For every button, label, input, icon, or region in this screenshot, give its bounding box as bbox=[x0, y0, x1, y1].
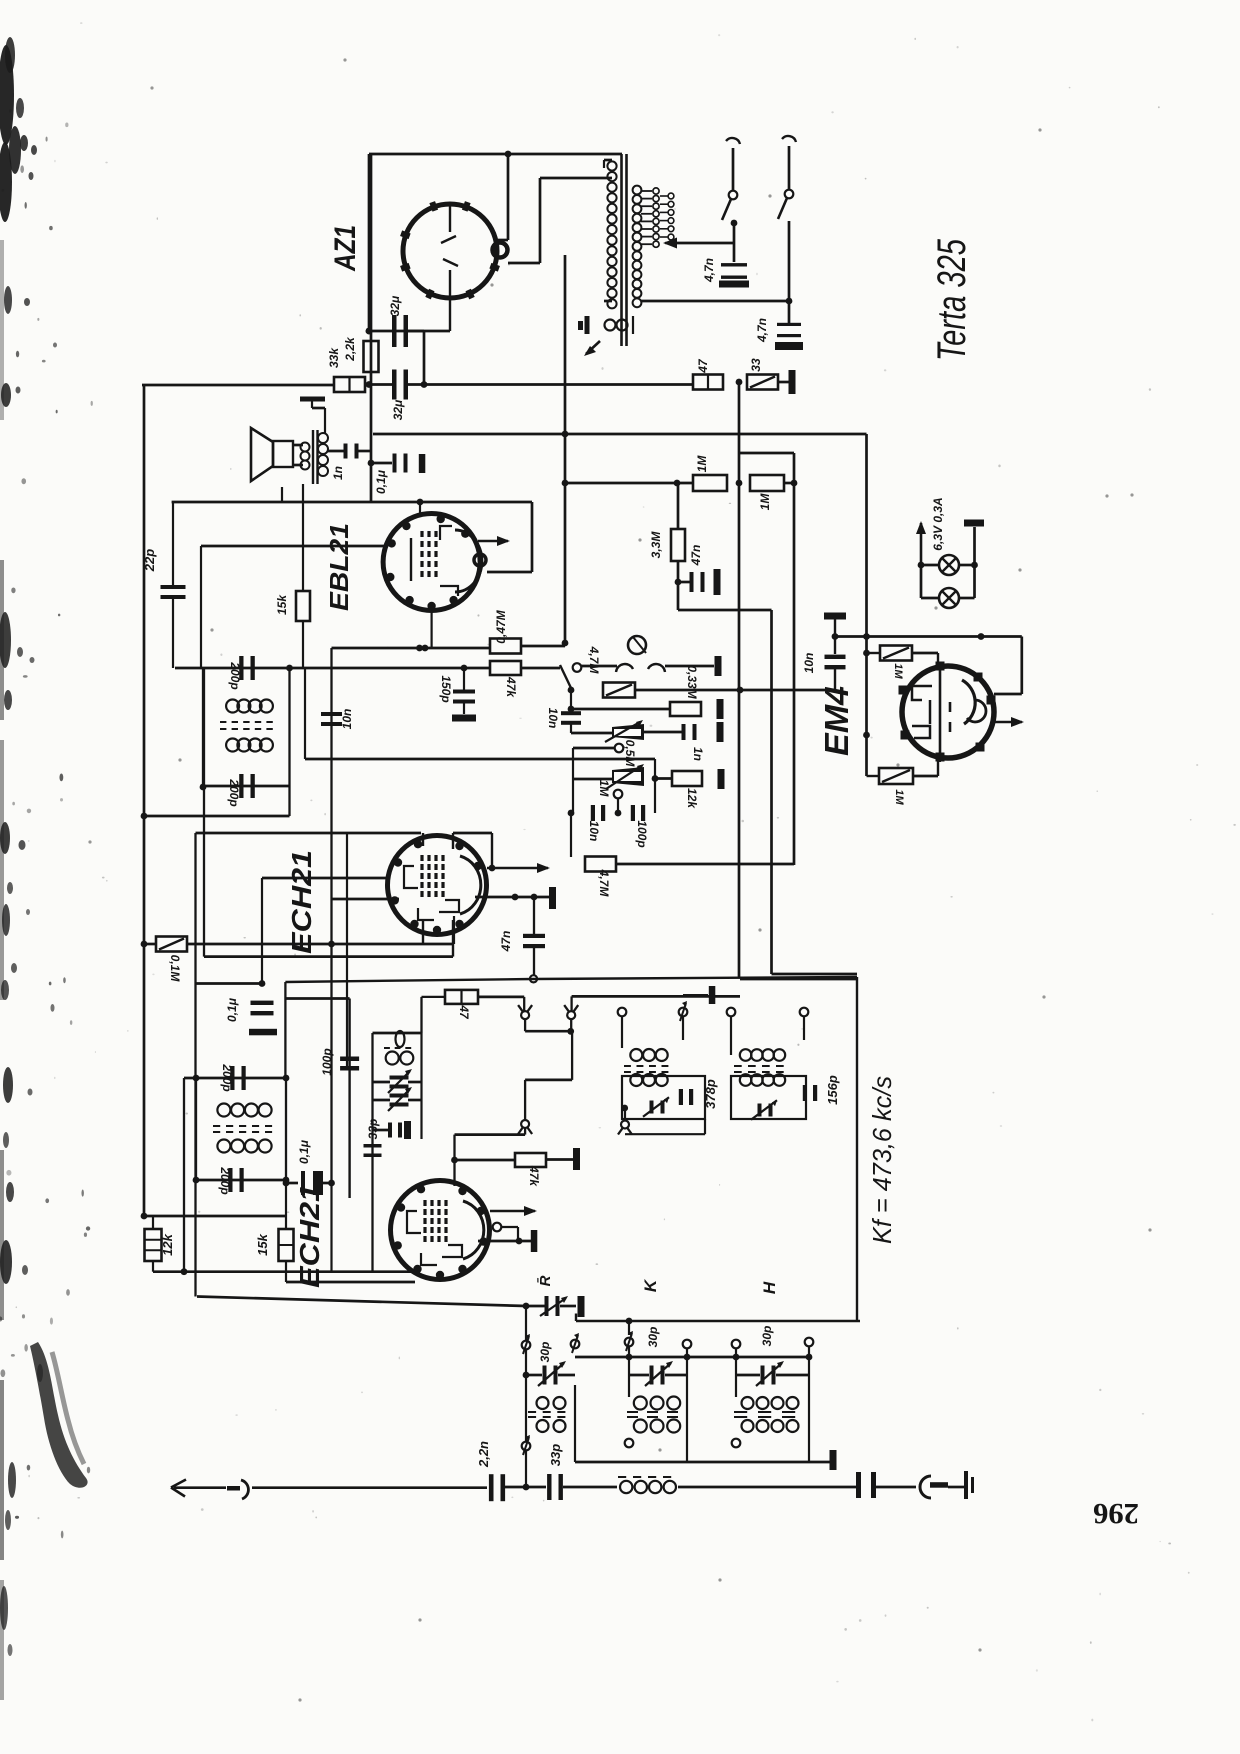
svg-text:200p: 200p bbox=[227, 778, 241, 806]
svg-text:6,3V 0,3A: 6,3V 0,3A bbox=[931, 497, 945, 550]
svg-text:4,7n: 4,7n bbox=[755, 318, 769, 343]
svg-text:100p: 100p bbox=[635, 820, 649, 847]
svg-text:Kf = 473,6 kc/s: Kf = 473,6 kc/s bbox=[867, 1076, 897, 1244]
svg-text:33k: 33k bbox=[327, 347, 341, 368]
svg-text:4,7M: 4,7M bbox=[597, 869, 611, 898]
svg-text:AZ1: AZ1 bbox=[329, 225, 362, 272]
svg-text:15k: 15k bbox=[275, 594, 289, 615]
svg-text:1M: 1M bbox=[892, 663, 904, 679]
svg-text:0,1μ: 0,1μ bbox=[225, 997, 239, 1022]
svg-text:47k: 47k bbox=[527, 1165, 541, 1187]
svg-text:1M: 1M bbox=[758, 493, 772, 511]
svg-text:K: K bbox=[641, 1278, 660, 1292]
svg-text:156p: 156p bbox=[825, 1075, 840, 1105]
svg-text:EM4: EM4 bbox=[818, 686, 855, 756]
svg-text:Terta 325: Terta 325 bbox=[930, 238, 974, 361]
svg-text:0,1μ: 0,1μ bbox=[374, 469, 388, 494]
svg-text:33: 33 bbox=[749, 358, 763, 372]
svg-text:2,2k: 2,2k bbox=[343, 336, 357, 362]
svg-text:33p: 33p bbox=[366, 1119, 380, 1140]
svg-text:0,5M: 0,5M bbox=[623, 740, 637, 768]
svg-text:H: H bbox=[760, 1281, 779, 1294]
svg-text:47n: 47n bbox=[499, 931, 513, 953]
svg-text:10n: 10n bbox=[340, 709, 354, 730]
svg-text:3,3M: 3,3M bbox=[649, 531, 663, 559]
svg-text:1n: 1n bbox=[331, 466, 345, 480]
svg-text:0,1μ: 0,1μ bbox=[297, 1139, 311, 1164]
svg-text:100p: 100p bbox=[320, 1048, 334, 1075]
svg-text:12k: 12k bbox=[160, 1233, 175, 1255]
svg-text:30p: 30p bbox=[538, 1342, 552, 1363]
svg-text:378p: 378p bbox=[703, 1079, 718, 1109]
svg-text:200p: 200p bbox=[220, 1063, 234, 1091]
svg-text:150p: 150p bbox=[439, 675, 453, 702]
svg-text:R̄: R̄ bbox=[536, 1275, 554, 1286]
svg-text:1M: 1M bbox=[695, 455, 709, 473]
svg-text:15k: 15k bbox=[255, 1233, 270, 1255]
svg-text:1M: 1M bbox=[893, 789, 905, 805]
svg-text:200p: 200p bbox=[228, 661, 242, 689]
svg-text:4,7n: 4,7n bbox=[702, 258, 716, 283]
svg-text:47: 47 bbox=[696, 358, 710, 374]
svg-text:ECH21: ECH21 bbox=[286, 850, 317, 954]
svg-text:1n: 1n bbox=[691, 747, 705, 761]
svg-text:30p: 30p bbox=[760, 1326, 774, 1347]
svg-text:47n: 47n bbox=[689, 545, 703, 567]
svg-text:ECH21: ECH21 bbox=[294, 1184, 325, 1288]
svg-text:0,1M: 0,1M bbox=[168, 955, 182, 983]
svg-text:296: 296 bbox=[1093, 1497, 1139, 1530]
svg-text:0,33M: 0,33M bbox=[685, 665, 699, 699]
svg-text:10n: 10n bbox=[587, 821, 601, 842]
svg-text:33p: 33p bbox=[548, 1444, 563, 1466]
svg-text:10n: 10n bbox=[546, 708, 560, 729]
svg-text:12k: 12k bbox=[685, 788, 699, 809]
svg-text:32μ: 32μ bbox=[391, 399, 405, 420]
svg-text:1M: 1M bbox=[597, 780, 611, 798]
svg-text:4,7M: 4,7M bbox=[587, 646, 601, 675]
svg-text:200p: 200p bbox=[218, 1166, 232, 1194]
svg-text:47k: 47k bbox=[504, 676, 518, 698]
svg-text:10n: 10n bbox=[802, 653, 816, 674]
svg-text:EBL21: EBL21 bbox=[324, 523, 354, 611]
svg-text:0,47M: 0,47M bbox=[494, 609, 508, 643]
svg-text:32μ: 32μ bbox=[388, 295, 402, 316]
svg-text:30p: 30p bbox=[646, 1327, 660, 1348]
svg-text:2,2n: 2,2n bbox=[476, 1441, 491, 1468]
svg-text:47: 47 bbox=[457, 1004, 471, 1020]
